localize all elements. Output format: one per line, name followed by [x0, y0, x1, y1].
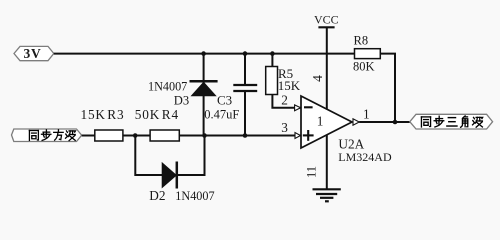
- wire: op-amp pin 11 to ground: [326, 135, 328, 189]
- resistor R3: [81, 107, 125, 141]
- svg-text:4: 4: [310, 75, 325, 82]
- svg-text:1: 1: [317, 113, 324, 128]
- svg-text:80K: 80K: [353, 60, 375, 74]
- port flag sync square wave (同步方波): [12, 129, 82, 142]
- wire: 3V flag to R8 (top net): [54, 53, 355, 55]
- svg-text:1N4007: 1N4007: [175, 189, 214, 203]
- svg-text:15K: 15K: [81, 107, 106, 122]
- node: junction R3/R4/D2: [133, 133, 138, 138]
- node: junction top of C3: [243, 51, 248, 56]
- resistor R4: [135, 107, 180, 141]
- wire: R4 to pin 3 (bottom net): [179, 135, 301, 137]
- wire: VCC to op-amp pin 4: [326, 27, 328, 110]
- wire: R3 to R4: [123, 135, 150, 137]
- node: junction top of D3: [201, 51, 206, 56]
- svg-text:2: 2: [281, 92, 288, 107]
- node: junction R4/D3/D2: [202, 133, 207, 138]
- wire: R5 bottom to op-amp pin 2: [272, 95, 301, 108]
- resistor R8: [353, 34, 380, 74]
- svg-text:3: 3: [281, 120, 288, 135]
- svg-text:R8: R8: [354, 34, 369, 48]
- svg-text:1N4007: 1N4007: [148, 79, 187, 93]
- svg-text:LM324AD: LM324AD: [338, 150, 392, 164]
- op-amp U2A: [295, 96, 392, 164]
- node: junction bottom of C3: [243, 133, 248, 138]
- diode D2: [149, 162, 214, 203]
- svg-text:VCC: VCC: [314, 13, 339, 27]
- svg-text:11: 11: [305, 166, 319, 178]
- svg-text:C3: C3: [217, 93, 232, 108]
- svg-text:50K: 50K: [135, 107, 160, 122]
- wire: flag to R3: [82, 135, 95, 137]
- svg-text:D2: D2: [149, 188, 165, 203]
- port flag 3V: [14, 46, 54, 61]
- node: output junction: [393, 120, 398, 125]
- ground: [313, 189, 341, 201]
- node: junction top of R5: [270, 51, 275, 56]
- capacitor C3: [204, 54, 257, 136]
- power VCC: [314, 13, 339, 28]
- wire: op-amp output to flag: [359, 121, 410, 123]
- svg-text:0.47uF: 0.47uF: [204, 107, 239, 121]
- svg-text:D3: D3: [174, 94, 189, 108]
- diode D3: [148, 54, 218, 136]
- svg-text:15K: 15K: [278, 78, 301, 93]
- svg-text:R3: R3: [107, 107, 124, 122]
- svg-text:3V: 3V: [24, 46, 42, 61]
- svg-text:R4: R4: [162, 107, 179, 122]
- wire: D2 bypass right leg: [177, 136, 205, 176]
- wire: R8 right to feedback node: [380, 54, 395, 122]
- svg-text:1: 1: [363, 107, 370, 122]
- resistor R5: [266, 54, 301, 95]
- port flag sync triangle wave (同步三角波): [410, 114, 493, 129]
- wire: D2 bypass left leg: [135, 136, 162, 176]
